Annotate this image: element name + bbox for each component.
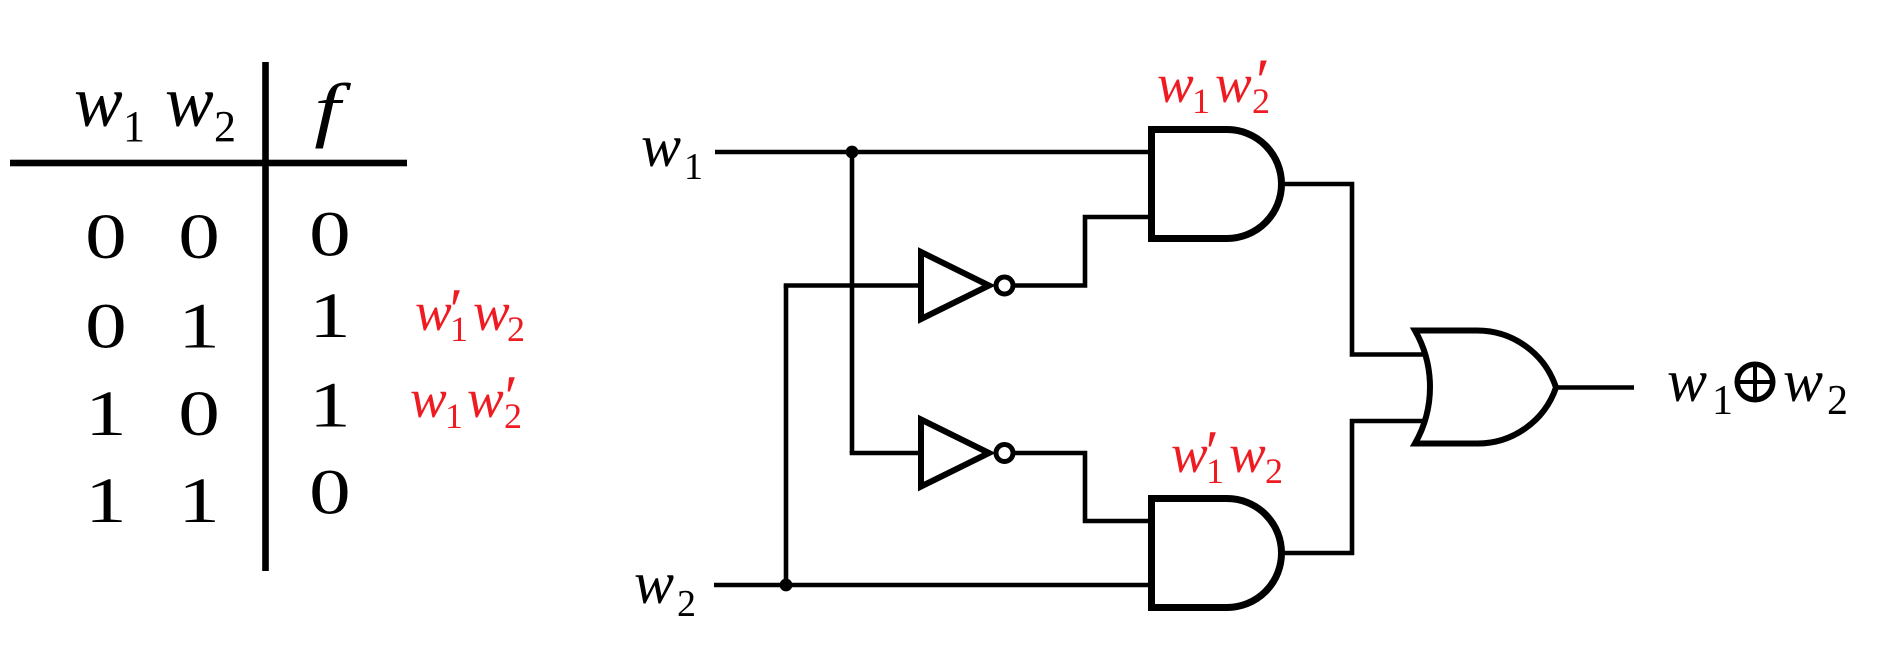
svg-text:2: 2 — [677, 583, 696, 625]
minterm label w1w2' (table, red) — [410, 364, 522, 436]
svg-text:w: w — [1157, 53, 1194, 114]
svg-text:1: 1 — [445, 396, 463, 436]
svg-text:0: 0 — [178, 378, 220, 450]
junction node on w1 — [846, 146, 859, 159]
svg-text:0: 0 — [309, 456, 351, 528]
svg-text:1: 1 — [85, 378, 127, 450]
svg-text:1: 1 — [1712, 378, 1733, 424]
svg-text:1: 1 — [123, 102, 145, 151]
wire w1 input — [715, 150, 1151, 155]
svg-text:1: 1 — [450, 309, 468, 349]
svg-text:2: 2 — [1265, 451, 1283, 491]
svg-text:1: 1 — [309, 369, 351, 441]
table row 3: 1 0 | 1 — [85, 369, 351, 450]
product label w1w2' (red, above AND1) — [1157, 45, 1270, 121]
table header separator line — [10, 160, 407, 167]
svg-text:0: 0 — [178, 201, 220, 273]
svg-text:1: 1 — [309, 280, 351, 352]
wire w2 input — [714, 583, 1151, 588]
table column separator line — [262, 62, 269, 571]
table row 1: 0 0 | 0 — [85, 198, 351, 273]
wire NOT2 output to AND2 upper input — [1013, 453, 1151, 521]
svg-text:0: 0 — [309, 198, 351, 270]
svg-text:w: w — [1229, 423, 1266, 484]
product label w1'w2 (red, above AND2) — [1171, 419, 1283, 491]
svg-text:w: w — [1783, 348, 1823, 414]
svg-text:1: 1 — [178, 465, 220, 537]
input label w2 — [634, 550, 696, 625]
output label w1 (of w1 xor w2) — [1667, 348, 1733, 424]
wire AND2 output to OR bottom input — [1282, 421, 1429, 553]
table row 2: 0 1 | 1 — [85, 280, 351, 363]
junction node on w2 — [780, 579, 793, 592]
minterm label w1'w2 (table, red) — [415, 277, 525, 349]
svg-text:w: w — [1667, 348, 1707, 414]
svg-text:w: w — [634, 550, 674, 616]
truth table header f — [314, 70, 351, 149]
xor symbol (circled plus) — [1735, 362, 1775, 402]
svg-text:w: w — [410, 368, 447, 429]
wire AND1 output to OR top input — [1282, 184, 1429, 355]
svg-text:1: 1 — [684, 146, 703, 188]
svg-text:1: 1 — [178, 290, 220, 362]
svg-text:w: w — [641, 113, 681, 179]
NOT gate 1 (inverter, top) — [921, 252, 1013, 319]
AND gate 2 (bottom) — [1152, 499, 1282, 608]
wire w2 branch vertical — [784, 286, 789, 586]
svg-text:w: w — [74, 61, 123, 142]
svg-text:0: 0 — [85, 201, 127, 273]
wire into NOT2 input — [850, 451, 922, 456]
svg-text:2: 2 — [1827, 378, 1848, 424]
svg-text:2: 2 — [1252, 81, 1270, 121]
svg-text:w: w — [165, 61, 214, 142]
svg-text:2: 2 — [504, 396, 522, 436]
svg-text:w: w — [467, 368, 504, 429]
input label w1 — [641, 113, 703, 188]
svg-text:1: 1 — [1192, 81, 1210, 121]
svg-text:w: w — [1215, 53, 1252, 114]
NOT gate 2 (inverter, bottom) — [921, 420, 1013, 487]
svg-text:1: 1 — [85, 465, 127, 537]
svg-text:0: 0 — [85, 290, 127, 362]
truth table header w1 w2 — [74, 61, 236, 151]
svg-text:w: w — [473, 281, 510, 342]
wire w1 branch vertical — [850, 152, 855, 453]
OR gate — [1415, 330, 1556, 443]
wire OR output — [1556, 385, 1634, 390]
wire NOT1 output to AND1 lower input — [1013, 217, 1151, 286]
AND gate 1 (top) — [1152, 130, 1282, 239]
svg-text:2: 2 — [507, 309, 525, 349]
wire into NOT1 input — [784, 283, 922, 288]
table row 4: 1 1 | 0 — [85, 456, 351, 537]
svg-text:1: 1 — [1206, 451, 1224, 491]
svg-text:2: 2 — [214, 102, 236, 151]
output label w2 (of w1 xor w2) — [1783, 348, 1848, 424]
